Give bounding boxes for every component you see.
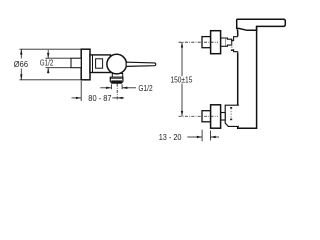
svg-text:G1/2: G1/2 bbox=[40, 58, 54, 67]
svg-text:G1/2: G1/2 bbox=[138, 84, 153, 93]
svg-text:Ø66: Ø66 bbox=[14, 59, 28, 69]
svg-text:13 - 20: 13 - 20 bbox=[159, 133, 182, 142]
svg-text:150±15: 150±15 bbox=[170, 76, 192, 85]
svg-text:80 - 87: 80 - 87 bbox=[88, 94, 112, 103]
